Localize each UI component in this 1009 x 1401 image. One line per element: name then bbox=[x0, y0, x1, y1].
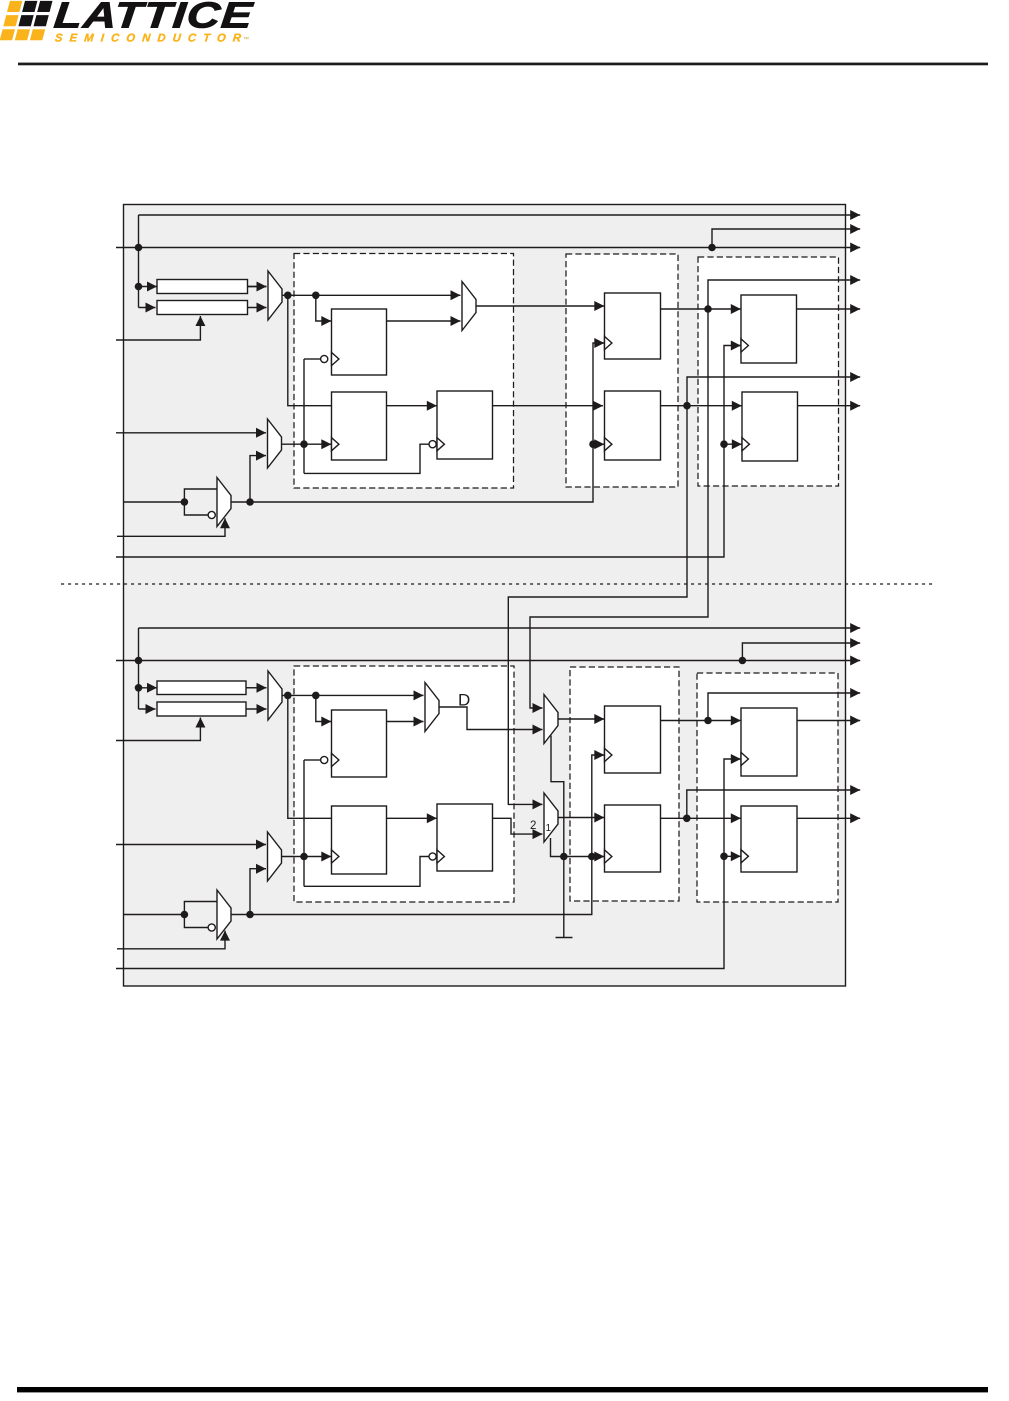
clock bubble: FF1B inverted clock bbox=[304, 756, 328, 763]
clock triangle: FF3B bbox=[437, 850, 444, 863]
wire: FF4 Q branch to output arrow bbox=[708, 275, 860, 309]
clock triangle: FF4 bbox=[605, 336, 612, 349]
wire: clock input (PIO A) bbox=[124, 501, 185, 503]
wire: branch down to FF2B D input bbox=[288, 695, 332, 818]
clock triangle: FF7 bbox=[742, 438, 749, 451]
wire: M4B output clock net bbox=[231, 750, 604, 915]
wire: SCLK to FF7B bbox=[724, 851, 741, 861]
wire: FF1B Q to mux M3B bbox=[387, 717, 424, 727]
mux M5: output data select 1 (PIO B) bbox=[544, 695, 558, 744]
junction: SCLK branch to FF7 bbox=[720, 440, 728, 448]
wire: delay control (B) bbox=[116, 718, 205, 741]
wire: FF7B Q to output arrow bbox=[797, 813, 860, 823]
wire: M4B select bbox=[117, 931, 230, 949]
clock bubble: FF3B inverted clock bbox=[429, 853, 436, 860]
junction: M1B output branch to FF2B bbox=[284, 692, 292, 700]
flip-flop FF6B: output register 1 (PIO B) bbox=[741, 708, 797, 776]
junction: clock branch at M2B bbox=[246, 911, 254, 919]
junction: FF4 Q branch bbox=[704, 305, 712, 313]
flip-flop FF3: DDR resync register (PIO A) bbox=[437, 391, 493, 459]
footer rule bbox=[17, 1387, 988, 1392]
junction: input net at left vertical bbox=[135, 244, 143, 252]
junction: FF5 Q branch bbox=[683, 402, 691, 410]
wire: FF4B Q to FF6B D bbox=[661, 716, 741, 726]
clock triangle: FF3 bbox=[437, 438, 444, 451]
wire: PIO B input pad net bbox=[116, 656, 860, 666]
wire: FF7 Q to output arrow bbox=[798, 401, 861, 411]
wire: DEL1 output to mux M1 (B) bbox=[246, 683, 267, 693]
junction: FF4B Q branch bbox=[704, 717, 712, 725]
wire: FF2B Q to FF3B D bbox=[387, 813, 437, 823]
junction: FF5B Q branch bbox=[683, 815, 691, 823]
clock triangle: FF6B bbox=[741, 752, 748, 765]
junction: delay input branch (B) bbox=[135, 684, 143, 692]
wire: PIO A input left vertical bbox=[138, 215, 140, 308]
wire: cross link A to PIO B mux M5 bbox=[530, 309, 708, 713]
second sync register block (dashed, PIO A) bbox=[698, 257, 839, 486]
wire: M2B lower input from clock bbox=[250, 864, 266, 915]
clock bubble: FF3 inverted clock bbox=[429, 441, 436, 448]
junction: delay input branch bbox=[135, 283, 143, 291]
clock bubble: M4 inverted input bbox=[208, 511, 215, 518]
wire: M5 select bbox=[551, 736, 564, 857]
junction: geared clock at FF2B bbox=[300, 853, 308, 861]
input register block (dashed, PIO B) bbox=[294, 666, 514, 902]
label 1: mux M6 input bbox=[546, 823, 552, 834]
wire: clock to FF3B via inverter bbox=[304, 857, 429, 887]
mux M2B: clock gear select (PIO B) bbox=[268, 832, 282, 881]
wire: FF6 Q to output arrow bbox=[797, 304, 861, 314]
wire: FF2 Q to FF3 D bbox=[387, 401, 437, 411]
clock bubble: FF1 inverted clock bbox=[304, 355, 328, 362]
delay block DEL2 (PIO B) bbox=[157, 702, 246, 716]
flip-flop FF5B: sync register 2 (PIO B) bbox=[605, 805, 661, 872]
clock arrow: FF2B bbox=[304, 852, 331, 862]
wire: system clock SCLK (PIO B) bbox=[116, 754, 741, 969]
mux M1: delay bypass select (PIO A) bbox=[268, 271, 282, 320]
flip-flop FF7: output register 2 (PIO A) bbox=[742, 392, 798, 461]
wire: M4 output clock net bbox=[231, 338, 604, 502]
wire: FF5B Q branch to output arrow bbox=[687, 785, 860, 818]
delay block DEL1 (PIO A) bbox=[157, 280, 248, 294]
wire: PIO A direct input to top output bbox=[139, 210, 861, 220]
wire: M4 select bbox=[117, 518, 230, 536]
wire: clock input (PIO B) bbox=[124, 914, 185, 916]
mux M2: clock gear select (PIO A) bbox=[268, 419, 282, 468]
mux M3: input path select (PIO A) bbox=[462, 282, 476, 331]
wire: M2B upper input bbox=[116, 840, 266, 850]
wire: PIO A input pad net bbox=[116, 243, 860, 253]
delay block DEL1 (PIO B) bbox=[157, 681, 246, 695]
wire: M3B output to mux M5 bbox=[439, 707, 543, 735]
flip-flop FF1: input register (PIO A) bbox=[332, 309, 387, 375]
wire: clock true path (B) bbox=[184, 902, 217, 915]
label D: direct input net bbox=[458, 691, 470, 710]
wire: into delay block 1 bbox=[139, 286, 267, 288]
wire: FF1 Q to mux M3 bbox=[387, 316, 461, 326]
wire: FF6B Q to output arrow bbox=[797, 716, 860, 726]
wire: select/clock tie line bbox=[564, 852, 605, 862]
ground termination bbox=[556, 857, 573, 938]
clock arrow: FF2 bbox=[304, 439, 331, 449]
mux M4: clock polarity select (PIO A) bbox=[217, 478, 231, 527]
svg-text:LATTICE: LATTICE bbox=[52, 0, 255, 36]
mux M4B: clock polarity select (PIO B) bbox=[217, 890, 231, 939]
svg-text:2: 2 bbox=[530, 820, 536, 832]
logo block: Lattice Semiconductor bbox=[0, 0, 256, 44]
header rule bbox=[18, 63, 988, 66]
wire: into delay block 1 (B) bbox=[139, 687, 267, 689]
wire: DEL1 output to mux M1 bbox=[248, 282, 267, 292]
clock triangle: FF6 bbox=[741, 339, 748, 352]
mux M1B: delay bypass select (PIO B) bbox=[268, 671, 282, 720]
wire: PIO B direct input to top output bbox=[139, 623, 861, 633]
PIO block outline bbox=[124, 205, 846, 987]
clock triangle: FF5B bbox=[605, 850, 612, 863]
junction: input net at left vertical (B) bbox=[135, 657, 143, 665]
wire: clock to FF5 bbox=[593, 439, 604, 449]
wire: M2 lower input from clock bbox=[250, 451, 266, 502]
flip-flop FF3B: DDR resync register (PIO B) bbox=[437, 804, 493, 871]
junction: clock branch to FF5 bbox=[589, 440, 597, 448]
flip-flop FF7B: output register 2 (PIO B) bbox=[741, 806, 797, 872]
flip-flop FF4B: sync register 1 (PIO B) bbox=[605, 706, 661, 773]
svg-text:™: ™ bbox=[243, 36, 249, 43]
wire: cross link B to PIO B mux M6 bbox=[508, 406, 687, 810]
wire: FF4 Q to FF6 D bbox=[661, 304, 741, 314]
clock triangle: FF1 bbox=[332, 352, 339, 365]
wire: branch down to FF1 D input bbox=[316, 295, 332, 326]
clock triangle: FF4B bbox=[605, 748, 612, 761]
flip-flop FF5: sync register 2 (PIO A) bbox=[605, 391, 661, 460]
wire: PIO B input left vertical bbox=[138, 628, 140, 709]
wire: clock vertical to FF1/FF2/FF3 bbox=[303, 359, 305, 473]
wire: system clock SCLK (PIO A) bbox=[116, 341, 741, 558]
wire: clock vertical to FF1B/FF2B/FF3B bbox=[303, 760, 305, 886]
flip-flop FF2B: DDR register (PIO B) bbox=[332, 806, 387, 874]
wire: FF5 Q to FF7 D bbox=[661, 401, 742, 411]
input register block (dashed, PIO A) bbox=[294, 254, 514, 489]
second sync register block (dashed, PIO B) bbox=[697, 673, 838, 902]
junction: M1B output branch to FF1B bbox=[312, 692, 320, 700]
junction: input net branch to second output bbox=[708, 244, 716, 252]
junction: input net branch to second output (B) bbox=[739, 657, 747, 665]
junction: M1 output branch to FF2 bbox=[284, 292, 292, 300]
wire: M2 upper input bbox=[116, 428, 266, 438]
wire: clock to FF5B bbox=[592, 856, 603, 858]
wire: branch up to second output arrow (B) bbox=[742, 638, 860, 661]
wire: SCLK to FF7 bbox=[724, 439, 742, 449]
clock triangle: FF5 bbox=[605, 438, 612, 451]
wire: M3 output to FF4 D bbox=[476, 301, 604, 311]
junction: clock split (B) bbox=[181, 911, 189, 919]
wire: DEL2 output to mux M1 bbox=[248, 303, 267, 313]
clock triangle: FF1B bbox=[332, 753, 339, 766]
wire arrowhead: delay block 1 input bbox=[147, 282, 157, 292]
wire: clock true path bbox=[184, 489, 217, 502]
junction: clock branch at M2 bbox=[246, 498, 254, 506]
wire: M6 output to FF5B D bbox=[558, 813, 604, 823]
wire: M2 output bbox=[282, 443, 305, 445]
flip-flop FF6: output register 1 (PIO A) bbox=[741, 295, 797, 363]
wire: branch down to FF1B D input bbox=[316, 695, 332, 726]
wire arrowhead: delay block 1 input (B) bbox=[147, 683, 157, 693]
flip-flop FF2: DDR register (PIO A) bbox=[332, 392, 387, 460]
wire: M5 output to FF4B D bbox=[558, 714, 604, 724]
wire: branch down to FF2 D input bbox=[288, 295, 332, 405]
junction: select tie at ground bbox=[560, 853, 568, 861]
junction: select tie at clock bbox=[588, 853, 596, 861]
junction: clock split bbox=[181, 498, 189, 506]
wire: branch up to second output arrow bbox=[712, 224, 860, 248]
wire: FF4B Q branch to output arrow bbox=[708, 688, 860, 721]
flip-flop FF4: sync register 1 (PIO A) bbox=[605, 293, 661, 359]
wire: M1 output to mux M3 bbox=[282, 290, 461, 300]
wire: FF5B Q to FF7B D bbox=[661, 813, 741, 823]
wire: M2B output bbox=[282, 856, 305, 858]
label 2: mux M6 input bbox=[530, 820, 536, 832]
svg-text:1: 1 bbox=[546, 823, 552, 834]
clock triangle: FF2 bbox=[332, 438, 339, 451]
junction: SCLK branch to FF7B bbox=[720, 853, 728, 861]
dotted page divider bbox=[61, 583, 934, 585]
mux M3B: input path select (PIO B) bbox=[425, 683, 439, 732]
first sync register block (dashed, PIO A) bbox=[566, 254, 678, 487]
junction: M1 output branch to FF1 bbox=[312, 292, 320, 300]
wire: FF3B Q to mux M6 bbox=[493, 818, 543, 839]
wire: clock to FF3 via inverter bbox=[304, 444, 429, 473]
flip-flop FF1B: input register (PIO B) bbox=[332, 710, 387, 777]
wire: clock inverted path (B) bbox=[184, 915, 208, 928]
mux M6: output data select 2 (PIO B) bbox=[544, 793, 558, 842]
wire: into delay block 2 bbox=[139, 303, 156, 313]
wire: clock inverted path bbox=[184, 502, 208, 515]
wire: M1B output to mux M3B bbox=[282, 690, 424, 700]
wire: delay control bbox=[116, 316, 205, 340]
clock bubble: M4B inverted input bbox=[208, 924, 215, 931]
wire: M6 select bbox=[551, 838, 564, 857]
wire: DEL2 output to mux M1 (B) bbox=[246, 704, 267, 714]
first sync register block (dashed, PIO B) bbox=[570, 667, 679, 901]
delay block DEL2 (PIO A) bbox=[157, 301, 248, 315]
wire: into delay block 2 (B) bbox=[139, 704, 156, 714]
clock triangle: FF7B bbox=[741, 850, 748, 863]
wire: FF3 Q to FF5 D bbox=[493, 401, 604, 411]
wire: FF5 Q branch to output arrow bbox=[687, 372, 860, 406]
clock triangle: FF2B bbox=[332, 850, 339, 863]
junction: geared clock at FF2 bbox=[300, 440, 308, 448]
